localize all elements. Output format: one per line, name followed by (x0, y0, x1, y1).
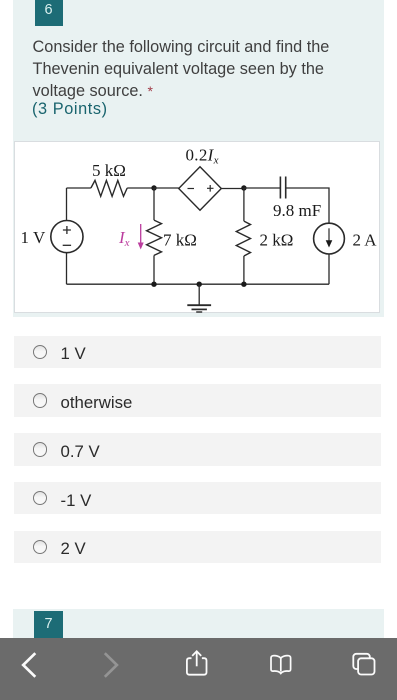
wire 2k branch top (243, 188, 245, 221)
option 2: otherwise (14, 384, 381, 417)
current source arrow (328, 228, 330, 241)
browser toolbar (0, 638, 397, 700)
option 3: 0.7 V (14, 433, 381, 466)
wire diamond to node B (221, 188, 244, 190)
minus sign inside diamond (188, 188, 195, 190)
wire 7k branch bottom (153, 255, 155, 284)
svg-text:Ix: Ix (118, 228, 130, 249)
option 1: 1 V (14, 336, 381, 369)
option 5: 2 V (14, 531, 381, 564)
question 7 teal section (13, 609, 384, 639)
resistor 7 kOhm zigzag (147, 220, 162, 255)
wire top-left horizontal (67, 187, 91, 189)
svg-text:0.2Ix: 0.2Ix (186, 146, 219, 167)
forward chevron (disabled) (105, 653, 117, 677)
option 4: -1 V (14, 482, 381, 515)
question text (33, 36, 378, 102)
back chevron (23, 653, 35, 677)
circuit white box (14, 141, 380, 313)
svg-text:9.8 mF: 9.8 mF (273, 201, 321, 220)
voltage source 1 V circle (51, 221, 83, 253)
tabs icon (353, 654, 374, 675)
Ix arrow magenta (140, 224, 142, 243)
plus sign inside source (63, 226, 71, 234)
node dot ground (197, 282, 202, 287)
bottom wire rail (67, 283, 330, 285)
dependent source 0.2Ix diamond (179, 167, 222, 210)
plus sign inside diamond (207, 185, 214, 192)
wire node B to capacitor (244, 187, 280, 189)
minus sign inside source (63, 244, 71, 246)
question 6 teal section (13, 0, 384, 317)
wire capacitor to right corner (286, 188, 329, 223)
wire 7k branch top (153, 188, 155, 220)
ground symbol (198, 284, 200, 305)
wire left branch bottom (66, 253, 68, 285)
svg-text:7 kΩ: 7 kΩ (163, 231, 197, 250)
svg-text:2 A: 2 A (353, 231, 378, 250)
node A dot (151, 185, 156, 190)
wire node A to diamond (154, 187, 179, 189)
current source 2 A circle (314, 223, 345, 254)
wire current source to bottom (328, 254, 330, 284)
wire resistor to node A (127, 187, 154, 189)
wire 2k branch bottom (243, 256, 245, 284)
wire left branch top (66, 188, 68, 221)
node dot 2k bottom (241, 282, 246, 287)
book icon (271, 656, 291, 674)
question 6 badge (35, 0, 63, 26)
svg-text:2 kΩ: 2 kΩ (260, 231, 294, 250)
capacitor 9.8 mF plates (280, 177, 285, 199)
resistor 5 kOhm zigzag (91, 180, 127, 196)
node dot 7k bottom (151, 282, 156, 287)
share icon (187, 651, 207, 674)
svg-text:1 V: 1 V (21, 228, 46, 247)
points (32, 100, 108, 119)
resistor 2 kOhm zigzag (236, 221, 250, 256)
svg-text:5 kΩ: 5 kΩ (92, 161, 126, 180)
question 7 badge (34, 611, 63, 638)
node B dot (241, 185, 246, 190)
